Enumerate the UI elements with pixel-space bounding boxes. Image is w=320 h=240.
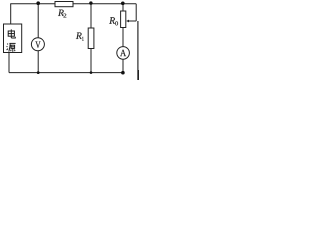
junction dot top R1 <box>89 1 92 4</box>
ammeter A <box>117 47 130 60</box>
wire battery bottom lead <box>8 53 10 73</box>
junction dot top R0 <box>121 2 125 6</box>
resistor R0 box (rheostat) <box>121 11 126 28</box>
scan artifact right edge line <box>137 21 139 80</box>
wire R1 branch lower <box>90 49 92 73</box>
wire R0 to ammeter <box>122 28 124 47</box>
voltmeter V <box>31 38 44 51</box>
resistor R1 box <box>88 28 94 49</box>
label R2 <box>58 10 66 18</box>
junction dot bottom ammeter <box>121 71 125 75</box>
wire R1 branch upper <box>90 4 92 28</box>
power source box 电源 <box>4 24 22 53</box>
resistor R2 box <box>55 2 73 7</box>
wire voltmeter branch upper <box>37 4 39 38</box>
junction dot top V <box>36 1 40 5</box>
wire right edge down to wiper <box>135 4 137 21</box>
wire top horizontal <box>10 3 136 5</box>
wire bottom horizontal <box>9 72 123 74</box>
hanzi 电 <box>8 29 15 38</box>
wire R0 branch upper <box>122 4 124 11</box>
wire top-left lead down to battery box <box>10 4 12 24</box>
label R0 <box>109 17 118 25</box>
wire voltmeter branch lower <box>37 51 39 73</box>
junction dot bottom V <box>37 71 40 74</box>
hanzi 源 <box>7 43 16 51</box>
wire wiper horizontal <box>128 20 136 22</box>
wire ammeter to bottom <box>122 59 124 72</box>
junction dot bottom R1 <box>90 71 93 74</box>
label R1 <box>76 33 84 41</box>
wiper arrowhead <box>126 20 129 23</box>
